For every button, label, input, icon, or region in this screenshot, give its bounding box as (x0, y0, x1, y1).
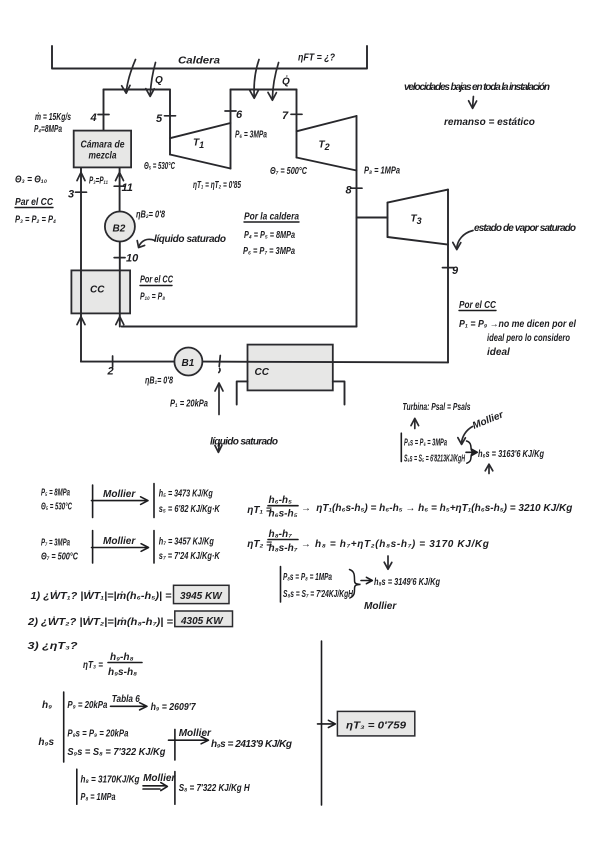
svg-text:Mollier: Mollier (103, 536, 136, 547)
svg-text:Mollier: Mollier (143, 773, 176, 784)
svg-text:h₈s-h₇: h₈s-h₇ (269, 543, 298, 554)
svg-text:3: 3 (68, 189, 74, 201)
svg-text:ηT₃ =: ηT₃ = (83, 660, 103, 671)
svg-text:P₄ = P₅ = 8MPa: P₄ = P₅ = 8MPa (244, 230, 295, 241)
svg-text:Turbina: Psal = Psals: Turbina: Psal = Psals (403, 402, 471, 413)
svg-text:velocidades bajas en toda la i: velocidades bajas en toda la instalación (404, 82, 550, 93)
svg-text:B1: B1 (182, 358, 195, 369)
svg-text:3) ¿ηT₃?: 3) ¿ηT₃? (28, 641, 78, 652)
svg-text:Por el CC: Por el CC (459, 300, 497, 311)
svg-text:h₇ = 3457 KJ/Kg: h₇ = 3457 KJ/Kg (159, 537, 214, 548)
svg-text:T3: T3 (411, 214, 422, 227)
svg-text:1) ¿ẆT₁? |ẆT₁|=|ṁ(h₆-h₅)| =: 1) ¿ẆT₁? |ẆT₁|=|ṁ(h₆-h₅)| = (31, 589, 172, 602)
svg-text:4305 KW: 4305 KW (180, 616, 224, 627)
svg-text:CC: CC (255, 367, 270, 378)
svg-text:→: → (301, 503, 311, 514)
svg-text:ideal pero lo considero: ideal pero lo considero (487, 333, 570, 344)
svg-text:P₈ = 1MPa: P₈ = 1MPa (81, 792, 116, 803)
svg-text:ηT₁ = ηT₂ = 0'85: ηT₁ = ηT₂ = 0'85 (193, 180, 241, 191)
svg-text:2: 2 (107, 366, 114, 378)
svg-text:ηB₁= 0'8: ηB₁= 0'8 (145, 376, 173, 387)
svg-text:S₉s = S₈ = 7'322 KJ/Kg: S₉s = S₈ = 7'322 KJ/Kg (67, 747, 165, 758)
svg-text:h₉s: h₉s (38, 737, 54, 748)
svg-text:remanso = estático: remanso = estático (444, 117, 535, 128)
svg-text:s₇ = 7'24 KJ/Kg·K: s₇ = 7'24 KJ/Kg·K (159, 551, 221, 562)
svg-text:h₈s = 3149'6 KJ/Kg: h₈s = 3149'6 KJ/Kg (374, 577, 440, 588)
svg-text:P₆ = P₇ = 3MPa: P₆ = P₇ = 3MPa (243, 246, 295, 257)
svg-text:Tabla 6: Tabla 6 (112, 694, 140, 705)
svg-text:Por el CC: Por el CC (140, 275, 174, 286)
svg-text:4: 4 (90, 112, 97, 124)
svg-text:P₆s = P₆ = 3MPa: P₆s = P₆ = 3MPa (404, 438, 447, 449)
svg-text:ideal: ideal (487, 347, 510, 358)
svg-text:6: 6 (236, 109, 243, 121)
svg-text:9: 9 (452, 265, 459, 277)
svg-text:B2: B2 (113, 224, 126, 235)
svg-text:h₉-h₈: h₉-h₈ (110, 652, 134, 663)
svg-text:h₈-h₇: h₈-h₇ (269, 529, 293, 540)
svg-text:P₄=8MPa: P₄=8MPa (34, 124, 62, 135)
svg-text:P₈ = 1MPa: P₈ = 1MPa (364, 166, 400, 177)
svg-text:10: 10 (126, 253, 139, 265)
svg-text:Por la caldera: Por la caldera (244, 212, 299, 223)
svg-text:Mollier: Mollier (364, 601, 397, 612)
svg-text:Θ₃ = Θ₁₀: Θ₃ = Θ₁₀ (15, 175, 47, 186)
svg-text:mezcla: mezcla (89, 151, 117, 162)
svg-text:3945 KW: 3945 KW (180, 591, 223, 602)
svg-text:P₆ = 3MPa: P₆ = 3MPa (235, 130, 267, 141)
svg-text:P₅ = 8MPa: P₅ = 8MPa (41, 488, 70, 499)
svg-text:2) ¿ẆT₂? |ẆT₂|=|ṁ(h₈-h₇)| =: 2) ¿ẆT₂? |ẆT₂|=|ṁ(h₈-h₇)| = (27, 615, 173, 628)
svg-text:5: 5 (156, 113, 163, 125)
svg-text:h₉ = 2609'7: h₉ = 2609'7 (151, 702, 196, 713)
svg-text:→ h₈ = h₇+ηT₂(h₈s-h₇) = 3170 K: → h₈ = h₇+ηT₂(h₈s-h₇) = 3170 KJ/Kg (301, 539, 489, 550)
svg-text:h₆s = 3163'6 KJ/Kg: h₆s = 3163'6 KJ/Kg (478, 449, 544, 460)
svg-text:P₉ = 20kPa: P₉ = 20kPa (67, 700, 107, 711)
svg-text:CC: CC (90, 285, 105, 296)
svg-text:P₁₀ = P₈: P₁₀ = P₈ (140, 292, 165, 303)
svg-text:Q: Q (155, 75, 163, 86)
svg-text:h₆-h₅: h₆-h₅ (269, 495, 293, 506)
svg-text:Θ₅ = 530°C: Θ₅ = 530°C (41, 502, 72, 513)
svg-text:Mollier: Mollier (471, 409, 506, 432)
svg-text:Mollier: Mollier (103, 489, 136, 500)
svg-text:P₈s = P₈ = 1MPa: P₈s = P₈ = 1MPa (283, 572, 332, 583)
svg-text:Q̇: Q̇ (282, 75, 290, 87)
svg-text:líquido saturado: líquido saturado (210, 437, 278, 448)
svg-text:T1: T1 (193, 138, 204, 151)
svg-text:P₉s = P₉ = 20kPa: P₉s = P₉ = 20kPa (67, 729, 128, 740)
svg-text:h₅ = 3473 KJ/Kg: h₅ = 3473 KJ/Kg (159, 489, 213, 500)
svg-text:ηFT = ¿?: ηFT = ¿? (298, 53, 335, 64)
svg-text:Cámara de: Cámara de (81, 140, 125, 151)
svg-text:T2: T2 (319, 140, 330, 153)
svg-text:8: 8 (346, 185, 353, 197)
svg-text:ηT₃ = 0'759: ηT₃ = 0'759 (346, 721, 407, 732)
svg-text:P₇ = 3MPa: P₇ = 3MPa (41, 538, 70, 549)
svg-text:P₃ = P₂ = P₄: P₃ = P₂ = P₄ (15, 215, 56, 226)
svg-text:P₁ = P₉ →no me dicen por el: P₁ = P₉ →no me dicen por el (459, 319, 576, 330)
svg-text:Caldera: Caldera (178, 56, 220, 67)
svg-text:P₃=P₁₁: P₃=P₁₁ (89, 176, 108, 187)
svg-text:estado de vapor saturado: estado de vapor saturado (474, 223, 576, 234)
svg-text:líquido saturado: líquido saturado (154, 234, 226, 245)
svg-text:S₆s = S₅ = 6'8213KJ/KgH: S₆s = S₅ = 6'8213KJ/KgH (404, 454, 465, 465)
svg-text:h₉s-h₈: h₉s-h₈ (108, 667, 137, 678)
svg-text:Mollier: Mollier (179, 728, 212, 739)
svg-text:Θ₇ = 500°C: Θ₇ = 500°C (270, 166, 308, 177)
svg-text:ηB₂= 0'8: ηB₂= 0'8 (136, 210, 165, 221)
svg-text:S₈s = S₇ = 7'24KJ/KgH: S₈s = S₇ = 7'24KJ/KgH (283, 589, 354, 600)
svg-text:h₆s-h₅: h₆s-h₅ (269, 509, 298, 520)
svg-text:h₈ = 3170KJ/Kg: h₈ = 3170KJ/Kg (81, 775, 140, 786)
svg-text:s₅ = 6'82 KJ/Kg·K: s₅ = 6'82 KJ/Kg·K (159, 504, 221, 515)
svg-text:S₈ = 7'322 KJ/Kg H: S₈ = 7'322 KJ/Kg H (179, 783, 251, 794)
svg-text:11: 11 (122, 182, 133, 194)
svg-text:ηT₁(h₆s-h₅) = h₆-h₅ → h₆ = h₅+: ηT₁(h₆s-h₅) = h₆-h₅ → h₆ = h₅+ηT₁(h₆s-h₅… (316, 503, 572, 514)
svg-text:Par el CC: Par el CC (15, 197, 54, 208)
svg-text:h₉: h₉ (42, 700, 52, 711)
svg-text:Θ₇ = 500°C: Θ₇ = 500°C (41, 552, 79, 563)
svg-text:Θ₅ = 530°C: Θ₅ = 530°C (144, 161, 175, 172)
svg-text:P₁ = 20kPa: P₁ = 20kPa (170, 399, 208, 410)
svg-text:7: 7 (282, 110, 289, 122)
svg-text:ṁ = 15Kg/s: ṁ = 15Kg/s (35, 112, 71, 123)
svg-text:h₉s = 2413'9 KJ/Kg: h₉s = 2413'9 KJ/Kg (211, 739, 292, 750)
